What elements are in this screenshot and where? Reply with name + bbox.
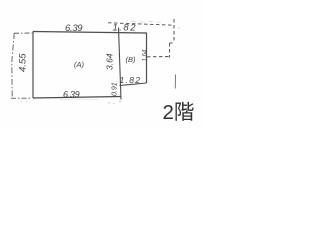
svg-text:3.64: 3.64 [105,53,115,70]
svg-text:2階: 2階 [163,101,195,124]
svg-text:(A): (A) [74,60,85,69]
svg-text:0.91: 0.91 [112,82,119,96]
svg-text:(B): (B) [126,55,137,64]
stray mark: faint vertical pencil segment right side [174,75,176,89]
wall: top edge of plan outline [33,32,147,34]
svg-text:6.39: 6.39 [63,89,80,99]
wall: left edge of room A [32,32,34,99]
svg-text:4.55: 4.55 [18,53,29,72]
dashed outline: right step lower vertical [169,43,171,58]
dimension line: dashed horizontal above room B (1.82 extent) [108,23,174,25]
wall: divider between room A and room B [119,28,122,100]
wall: bottom edge of room A [33,97,121,99]
svg-text:1.82: 1.82 [120,75,142,85]
dashed outline: step horizontal jog [170,42,175,44]
dimension line: bottom-left dash-dot connector [11,97,32,99]
stray mark: faint specks below plan [108,102,110,104]
svg-text:1.64: 1.64 [143,49,149,61]
dimension line: top-left dash-dot connector [14,32,33,34]
dashed outline: right step upper vertical [173,19,175,43]
dashed outline: leader back to room B right edge [147,56,170,58]
svg-text:6.39: 6.39 [65,23,83,34]
dimension line: left vertical dash-dot (4.55 extent) [12,33,14,99]
svg-text:1.82: 1.82 [113,23,138,34]
wall: bottom edge of room B [120,83,147,86]
wall: right edge of room B [146,33,148,83]
stray mark: faint pencil ghosting above dimension line [132,21,136,22]
